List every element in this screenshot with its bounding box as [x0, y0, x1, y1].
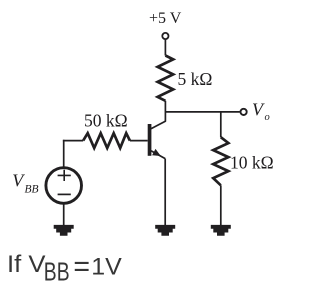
- svg-text:If V: If V: [7, 251, 46, 278]
- ground G3: [211, 225, 231, 236]
- transistor Q1 emitter arrowhead: [152, 149, 161, 156]
- terminal +5V: [162, 33, 168, 39]
- wire VBB top to corner: [63, 140, 65, 168]
- svg-text:V: V: [252, 100, 265, 120]
- svg-text:5 kΩ: 5 kΩ: [178, 69, 213, 89]
- transistor Q1 base bar: [148, 124, 152, 156]
- resistor R1 5k zigzag: [158, 56, 174, 101]
- svg-text:BB: BB: [25, 183, 39, 195]
- svg-text:50 kΩ: 50 kΩ: [84, 110, 128, 130]
- svg-text:o: o: [265, 112, 270, 123]
- svg-text:=: =: [73, 251, 90, 283]
- svg-text:1V: 1V: [91, 254, 122, 281]
- wire R1 to collector node: [164, 101, 166, 122]
- wire node to R2: [220, 112, 222, 137]
- svg-text:10 kΩ: 10 kΩ: [230, 153, 274, 173]
- plus sign in VBB: [58, 170, 71, 181]
- svg-text:BB: BB: [44, 259, 70, 286]
- transistor Q1 collector lead: [151, 121, 166, 129]
- ground G2: [155, 225, 175, 236]
- resistor R3 50k zigzag: [83, 133, 130, 148]
- wire emitter to ground: [164, 159, 166, 226]
- minus sign in VBB: [58, 193, 71, 195]
- transistor Q1 emitter lead: [151, 151, 165, 159]
- resistor R2 10k zigzag: [213, 137, 228, 185]
- svg-text:+5 V: +5 V: [149, 10, 182, 27]
- wire +5V to R1: [164, 39, 166, 55]
- wire collector node to Vo: [165, 111, 240, 113]
- voltage source VBB: [46, 168, 82, 204]
- wire corner to R3: [63, 140, 83, 142]
- wire R3 to base: [130, 140, 148, 142]
- svg-text:V: V: [12, 171, 25, 191]
- wire VBB bottom to ground: [63, 203, 65, 226]
- terminal Vo: [241, 109, 247, 115]
- caption If VBB = 1V: [7, 251, 122, 286]
- ground G1: [54, 225, 74, 236]
- wire R2 to ground: [220, 185, 222, 226]
